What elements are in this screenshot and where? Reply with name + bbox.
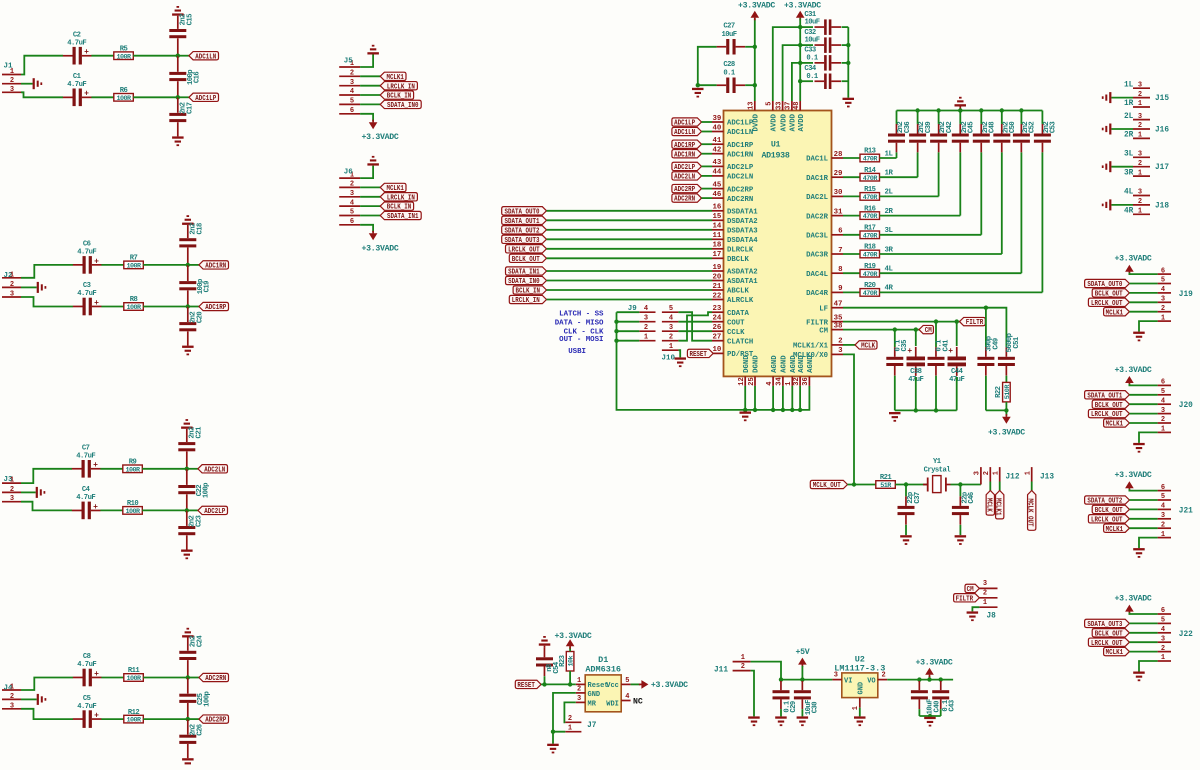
wire node2 to label bbox=[178, 96, 189, 98]
wire C15 to node1 bbox=[177, 38, 179, 55]
svg-text:C29: C29 bbox=[790, 701, 798, 713]
ground above C21 bbox=[181, 419, 193, 429]
svg-text:DAC4R: DAC4R bbox=[806, 290, 829, 298]
wire LRCLK_OUT to J19 bbox=[1129, 301, 1157, 303]
net label ADC2LP bbox=[198, 506, 228, 516]
wire DGND pin to rail bbox=[744, 386, 746, 410]
wire AVDD pin rail to C32 bbox=[783, 45, 801, 101]
wire C31 to gnd bus bbox=[842, 26, 849, 28]
svg-text:4: 4 bbox=[1161, 397, 1165, 405]
capacitor C29 0.1 bbox=[773, 681, 799, 713]
wire AGND pin to rail bbox=[772, 386, 774, 410]
svg-text:18: 18 bbox=[713, 242, 722, 250]
svg-text:100R: 100R bbox=[126, 304, 142, 312]
wire J12 pin1 to MCLK1 label bbox=[999, 482, 1001, 492]
wire VO row bbox=[887, 679, 953, 681]
wire C42 lead up bbox=[938, 111, 940, 124]
wire J10 pin3 to CCLK bbox=[678, 330, 712, 332]
svg-text:MCLK: MCLK bbox=[984, 498, 992, 513]
svg-text:C45: C45 bbox=[968, 122, 976, 134]
svg-text:C39: C39 bbox=[925, 122, 933, 134]
net label BCLK_IN bbox=[380, 202, 413, 212]
svg-text:4L: 4L bbox=[885, 266, 894, 274]
wire J6 pin1 to ground bbox=[360, 166, 373, 179]
svg-text:ADC2RP: ADC2RP bbox=[727, 186, 754, 194]
wire node1 to label bbox=[187, 468, 198, 470]
svg-text:8: 8 bbox=[838, 266, 843, 274]
net name 2R bbox=[885, 208, 894, 216]
ground at J2 pin2 bbox=[37, 282, 47, 293]
svg-text:2: 2 bbox=[741, 663, 745, 671]
svg-text:C18: C18 bbox=[196, 223, 204, 235]
U2 pin 2 VO bbox=[867, 672, 887, 686]
net label LRCLK_OUT at J20 bbox=[1088, 409, 1129, 419]
svg-text:2: 2 bbox=[350, 181, 354, 189]
junction C40 row bbox=[917, 677, 921, 681]
net name 4R bbox=[885, 285, 894, 293]
svg-text:6: 6 bbox=[1161, 267, 1165, 275]
wire +3.3VADC to J20 pin6 bbox=[1129, 384, 1157, 386]
ground below AVDD caps bbox=[843, 98, 855, 108]
svg-text:3: 3 bbox=[10, 86, 14, 94]
svg-text:4.7uF: 4.7uF bbox=[67, 81, 86, 89]
svg-text:46: 46 bbox=[713, 191, 722, 199]
svg-text:1: 1 bbox=[785, 381, 793, 385]
svg-text:C19: C19 bbox=[204, 281, 212, 293]
wire C40 top lead bbox=[918, 680, 920, 681]
svg-text:2: 2 bbox=[1138, 160, 1142, 168]
svg-text:LRCLK_IN: LRCLK_IN bbox=[512, 297, 540, 305]
wire to C34 bbox=[800, 80, 813, 82]
resistor R14 470R bbox=[860, 167, 880, 183]
wire to C33 bbox=[800, 62, 813, 64]
svg-text:16: 16 bbox=[713, 204, 722, 212]
wire C44 top lead bbox=[956, 322, 958, 346]
net label MCLK1 at J22 bbox=[1104, 647, 1130, 657]
net name 4R at J18 bbox=[1124, 208, 1134, 216]
capacitor C3 4.7uF bbox=[73, 282, 102, 315]
net label LRCLK_IN at U1 bbox=[509, 295, 546, 305]
svg-text:CCLK: CCLK bbox=[727, 329, 745, 337]
wire C27 right lead bbox=[745, 46, 755, 48]
wire C28 right lead bbox=[745, 84, 755, 86]
svg-text:1L: 1L bbox=[885, 150, 894, 158]
power +3.3VADC above J19 bbox=[1115, 255, 1152, 275]
wire C35 bottom lead bbox=[894, 376, 896, 411]
wire C2 to R5 bbox=[91, 55, 113, 57]
svg-text:1: 1 bbox=[644, 334, 648, 342]
svg-text:+: + bbox=[907, 347, 912, 356]
svg-text:ADC1LN: ADC1LN bbox=[195, 53, 216, 61]
svg-text:DSDATA4: DSDATA4 bbox=[727, 237, 758, 245]
U1 pin 43 ADC2LP bbox=[712, 159, 754, 172]
wire C52 lead down bbox=[1020, 152, 1022, 273]
wire C28 left lead bbox=[698, 84, 717, 86]
net name 2L at J16 bbox=[1124, 113, 1134, 121]
wire ground to J17 pin2 bbox=[1111, 166, 1133, 168]
junction rail AGND bbox=[781, 408, 785, 412]
wire ground to J15 pin2 bbox=[1111, 97, 1133, 99]
svg-text:1R: 1R bbox=[885, 170, 894, 178]
net label ADC2RN at U1 bbox=[672, 194, 702, 204]
wire C30 top lead bbox=[801, 680, 803, 681]
svg-text:ADC1RN: ADC1RN bbox=[205, 263, 226, 271]
junction USBI bus bbox=[614, 339, 618, 343]
wire J10 pin4 to COUT bbox=[678, 321, 712, 323]
svg-text:6: 6 bbox=[1161, 379, 1165, 387]
svg-text:44: 44 bbox=[713, 169, 722, 177]
wire J3 pin1 to row1 bbox=[21, 469, 72, 483]
svg-text:4: 4 bbox=[625, 693, 629, 701]
svg-text:4: 4 bbox=[1161, 626, 1165, 634]
svg-text:MCLK1: MCLK1 bbox=[386, 74, 404, 82]
U1 pin 12 DGND bbox=[738, 355, 751, 386]
U1 pin 42 ADC1RN bbox=[712, 147, 753, 160]
svg-text:C5: C5 bbox=[83, 695, 91, 703]
wire DAC out to R20 bbox=[843, 291, 860, 293]
wire SDATA_OUT2 to U1 bbox=[547, 229, 713, 231]
net label BCLK_OUT at J20 bbox=[1092, 400, 1129, 410]
svg-text:36: 36 bbox=[802, 377, 810, 385]
junction USBI bus bbox=[614, 329, 618, 333]
node junction row1 bbox=[176, 54, 180, 58]
power +3.3VADC below J6 bbox=[362, 231, 399, 254]
wire J1 pin2 to ground bbox=[21, 83, 33, 85]
svg-text:6: 6 bbox=[838, 228, 843, 236]
svg-text:1: 1 bbox=[1024, 471, 1032, 475]
resistor R18 470R bbox=[860, 244, 880, 260]
svg-text:1: 1 bbox=[1161, 531, 1165, 539]
svg-text:4.7uF: 4.7uF bbox=[77, 661, 96, 669]
wire J7 pin1 to node bbox=[553, 732, 565, 744]
wire C29 top lead bbox=[780, 680, 782, 681]
resistor R22 510R bbox=[995, 382, 1012, 402]
net label BCLK_IN at U1 bbox=[513, 286, 546, 296]
svg-text:C48: C48 bbox=[989, 122, 997, 134]
svg-text:D1: D1 bbox=[598, 655, 608, 665]
wire C1 to R6 bbox=[91, 96, 113, 98]
ground at J18 pin2 bbox=[1102, 199, 1112, 210]
D1 pin 5 Vcc bbox=[606, 677, 630, 690]
wire C39 lead up bbox=[917, 111, 919, 124]
U1 pin 7 DAC3R bbox=[806, 247, 843, 260]
svg-text:C20: C20 bbox=[196, 312, 204, 324]
svg-text:1: 1 bbox=[1138, 208, 1142, 216]
wire J1 pin1 to row1 bbox=[21, 56, 63, 75]
svg-text:3: 3 bbox=[1161, 296, 1165, 304]
resistor R9 100R bbox=[123, 459, 143, 475]
svg-text:LATCH - SS: LATCH - SS bbox=[559, 311, 604, 319]
connector J21 bbox=[1158, 484, 1194, 539]
svg-text:+: + bbox=[94, 299, 99, 308]
svg-text:DLRCLK: DLRCLK bbox=[727, 247, 754, 255]
wire node1 to C19 bbox=[187, 265, 189, 281]
svg-text:3: 3 bbox=[577, 695, 581, 703]
svg-text:NC: NC bbox=[633, 697, 643, 706]
net label MCLK bbox=[855, 341, 877, 351]
connector J13 bbox=[1024, 467, 1054, 481]
svg-text:R9: R9 bbox=[129, 459, 137, 467]
wire MCLK0/X0 to MCLK_OUT node bbox=[843, 354, 854, 484]
U1 pin 18 DLRCLK bbox=[712, 242, 754, 255]
svg-text:+: + bbox=[94, 712, 99, 721]
capacitor C39 2n2 bbox=[909, 122, 933, 153]
svg-text:470R: 470R bbox=[863, 252, 879, 260]
wire DAC out to R18 bbox=[843, 253, 860, 255]
net label SDATA_OUT3 at J22 bbox=[1085, 619, 1130, 629]
svg-text:U1: U1 bbox=[771, 141, 781, 150]
ground below C20 bbox=[182, 346, 194, 356]
connector J7 bbox=[565, 715, 596, 732]
net label SDATA_OUT2 at U1 bbox=[502, 226, 547, 236]
U1 pin 20 ASDATA1 bbox=[712, 273, 758, 286]
svg-text:ADC1RN: ADC1RN bbox=[727, 151, 753, 159]
capacitor C5 4.7uF bbox=[73, 695, 102, 728]
svg-text:DAC1R: DAC1R bbox=[806, 175, 829, 183]
wire node2 to label bbox=[188, 306, 199, 308]
junction C29 row bbox=[779, 677, 783, 681]
wire C40-C43 ground link bbox=[919, 715, 940, 717]
svg-text:C23: C23 bbox=[195, 516, 203, 528]
svg-text:ADC1LP: ADC1LP bbox=[674, 120, 695, 128]
capacitor C40 10uF bbox=[911, 681, 942, 715]
svg-text:4: 4 bbox=[1161, 286, 1165, 294]
wire C35 top lead bbox=[894, 330, 896, 348]
wire C26 to ground bbox=[187, 744, 189, 758]
svg-text:ADC1RP: ADC1RP bbox=[205, 304, 226, 312]
wire LRCLK_OUT to J20 bbox=[1129, 413, 1157, 415]
svg-text:1: 1 bbox=[1138, 100, 1142, 108]
capacitor C36 2n2 bbox=[888, 122, 912, 153]
svg-text:+3.3VADC: +3.3VADC bbox=[362, 244, 399, 253]
net label ADC1RP at U1 bbox=[672, 140, 702, 150]
svg-text:3: 3 bbox=[1161, 407, 1165, 415]
svg-text:Crystal: Crystal bbox=[924, 466, 952, 474]
net label BCLK_OUT at U1 bbox=[509, 254, 546, 264]
ground below C26 bbox=[182, 758, 194, 768]
wire C40 bottom lead bbox=[918, 709, 920, 716]
svg-text:DAC3R: DAC3R bbox=[806, 252, 829, 260]
wire R21 to C37 node bbox=[895, 484, 927, 486]
junction CM C38 bbox=[914, 327, 918, 331]
U1 pin 19 ASDATA2 bbox=[712, 264, 758, 277]
wire J4 pin1 to row1 bbox=[21, 678, 73, 691]
junction rail AGND bbox=[798, 408, 802, 412]
net label CM bbox=[919, 325, 933, 335]
svg-text:C36: C36 bbox=[904, 122, 912, 134]
svg-text:3L: 3L bbox=[885, 227, 894, 235]
svg-text:ADC2RP: ADC2RP bbox=[674, 186, 695, 194]
wire ground to C18 bbox=[187, 225, 189, 238]
wire SDATA_OUT2 to J21 bbox=[1129, 499, 1157, 501]
svg-text:2: 2 bbox=[10, 281, 14, 289]
svg-text:10uF: 10uF bbox=[721, 31, 736, 39]
svg-text:100R: 100R bbox=[125, 466, 141, 474]
svg-text:ASDATA2: ASDATA2 bbox=[727, 269, 758, 277]
wire J6 pin4 to label bbox=[360, 205, 380, 207]
svg-text:4: 4 bbox=[350, 88, 354, 96]
connector J16 bbox=[1133, 113, 1169, 140]
U1 pin 34 AGND bbox=[776, 355, 789, 386]
net label BCLK_OUT at J22 bbox=[1092, 629, 1129, 639]
svg-text:100R: 100R bbox=[116, 95, 132, 103]
wire ADC2LN to U1 pin bbox=[702, 175, 713, 177]
U1 pin 4 AGND bbox=[766, 355, 779, 386]
wire J1 pin3 to row2 bbox=[21, 92, 63, 97]
svg-text:3: 3 bbox=[350, 190, 354, 198]
capacitor C41 0.1 bbox=[928, 339, 951, 376]
svg-text:1: 1 bbox=[852, 706, 860, 710]
svg-text:470R: 470R bbox=[863, 232, 879, 240]
svg-text:2: 2 bbox=[644, 324, 648, 332]
svg-text:+5V: +5V bbox=[795, 648, 809, 657]
svg-text:4.7uF: 4.7uF bbox=[77, 290, 96, 298]
svg-text:C2: C2 bbox=[73, 31, 81, 39]
net name 3R bbox=[885, 246, 894, 254]
svg-text:DSDATA1: DSDATA1 bbox=[727, 209, 758, 217]
ground at J8 bbox=[967, 611, 979, 621]
node junction row1 bbox=[185, 467, 189, 471]
svg-text:ADC2RN: ADC2RN bbox=[674, 196, 695, 204]
svg-text:MCLK1: MCLK1 bbox=[1106, 309, 1124, 317]
junction CM rail C38 bbox=[914, 408, 918, 412]
svg-text:RESET: RESET bbox=[517, 682, 535, 690]
connector J3 bbox=[2, 476, 21, 503]
svg-text:SDATA_OUT2: SDATA_OUT2 bbox=[505, 227, 540, 235]
capacitor C18 2n2 bbox=[179, 223, 204, 247]
ground above C18 bbox=[182, 215, 194, 225]
svg-text:C8: C8 bbox=[83, 653, 91, 661]
svg-text:LRCLK_OUT: LRCLK_OUT bbox=[1091, 300, 1123, 308]
net label MCLK1 at J20 bbox=[1104, 419, 1130, 429]
svg-text:J21: J21 bbox=[1179, 507, 1193, 515]
svg-text:+3.3VADC: +3.3VADC bbox=[988, 428, 1025, 437]
connector J20 bbox=[1158, 379, 1194, 434]
net label ADC2LP at U1 bbox=[672, 162, 702, 172]
wire R11 to node bbox=[143, 677, 188, 679]
wire LRCLK_OUT to J21 bbox=[1129, 518, 1157, 520]
D1 pin 3 MR bbox=[576, 695, 597, 708]
net label LRCLK_IN bbox=[380, 82, 417, 92]
wire node1 to label bbox=[178, 55, 189, 57]
svg-text:+: + bbox=[94, 257, 99, 266]
svg-text:+3.3VADC: +3.3VADC bbox=[362, 133, 399, 142]
net label MCLK1 bbox=[380, 183, 406, 193]
svg-text:3: 3 bbox=[350, 79, 354, 87]
wire C25 to node2 bbox=[187, 703, 189, 719]
regulator U2 body LM1117-3.3 bbox=[834, 654, 885, 697]
U2 pin 1 GND bbox=[852, 682, 866, 710]
power +3.3VADC above J22 bbox=[1115, 595, 1152, 615]
svg-text:J16: J16 bbox=[1155, 127, 1169, 135]
svg-text:SDATA_OUT0: SDATA_OUT0 bbox=[1087, 281, 1122, 289]
svg-text:4: 4 bbox=[644, 305, 648, 313]
svg-text:J20: J20 bbox=[1179, 402, 1193, 410]
power +3.3VADC above J21 bbox=[1115, 471, 1152, 491]
connector J17 bbox=[1133, 151, 1169, 178]
wire R13 to cap C36 bbox=[880, 157, 897, 159]
wire C41 top lead bbox=[935, 322, 937, 348]
wire J6 pin5 to label bbox=[360, 215, 380, 217]
junction R23 bbox=[568, 682, 572, 686]
svg-text:R23: R23 bbox=[559, 655, 567, 667]
U1 pin 36 AGND bbox=[802, 355, 815, 386]
svg-text:USBI: USBI bbox=[568, 348, 586, 356]
junction USBI bus bbox=[614, 320, 618, 324]
wire R12 to node bbox=[143, 718, 188, 720]
svg-text:+: + bbox=[93, 461, 98, 470]
svg-text:SDATA_OUT0: SDATA_OUT0 bbox=[505, 208, 540, 216]
svg-text:1: 1 bbox=[669, 343, 673, 351]
wire MCLK1 to J20 bbox=[1129, 422, 1157, 424]
net name 4L bbox=[885, 266, 894, 274]
svg-text:+: + bbox=[84, 48, 89, 57]
svg-text:4.7uF: 4.7uF bbox=[76, 494, 95, 502]
capacitor C19 100p bbox=[179, 279, 211, 294]
U1 pin 1 AGND bbox=[785, 355, 798, 386]
svg-text:C52: C52 bbox=[1029, 122, 1037, 134]
svg-text:+3.3VADC: +3.3VADC bbox=[1115, 255, 1152, 264]
wire node1 to label bbox=[188, 677, 199, 679]
U1 pin 9 DAC4R bbox=[806, 285, 843, 298]
connector J8 bbox=[979, 580, 997, 621]
wire J11 pin1 to VI row bbox=[751, 662, 781, 680]
svg-text:J15: J15 bbox=[1155, 95, 1169, 103]
ground at J16 pin2 bbox=[1102, 124, 1112, 135]
U1 pin 6 DAC3L bbox=[806, 228, 843, 241]
svg-text:6: 6 bbox=[1161, 607, 1165, 615]
wire DAC out to R19 bbox=[843, 272, 860, 274]
node junction row2 bbox=[185, 508, 189, 512]
capacitor C31 10uF bbox=[804, 11, 841, 35]
capacitor C52 2n2 bbox=[1013, 122, 1037, 153]
wire C20 to ground bbox=[187, 331, 189, 345]
svg-text:470R: 470R bbox=[863, 271, 879, 279]
resistor R13 470R bbox=[860, 148, 880, 164]
wire R23 bottom lead bbox=[569, 671, 571, 684]
svg-text:DSDATA2: DSDATA2 bbox=[727, 218, 758, 226]
wire AVDD48 rail bbox=[799, 19, 801, 102]
svg-text:39: 39 bbox=[713, 115, 722, 123]
svg-text:3: 3 bbox=[10, 702, 14, 710]
svg-text:MCLK1/X1: MCLK1/X1 bbox=[793, 343, 829, 351]
svg-text:470R: 470R bbox=[863, 194, 879, 202]
ground below C29 bbox=[775, 716, 787, 726]
svg-text:2: 2 bbox=[1138, 198, 1142, 206]
wire J5 pin4 to label bbox=[360, 94, 380, 96]
capacitor C44 47uF bbox=[948, 347, 967, 384]
svg-text:1: 1 bbox=[1161, 314, 1165, 322]
svg-text:ADC1LN: ADC1LN bbox=[727, 129, 753, 137]
svg-text:47: 47 bbox=[834, 301, 843, 309]
net label ADC2RN bbox=[199, 673, 229, 683]
wire node1 to label bbox=[188, 264, 199, 266]
svg-text:+: + bbox=[84, 90, 89, 99]
net label ADC2LN bbox=[198, 465, 228, 475]
wire R9 to node bbox=[142, 468, 187, 470]
svg-text:4R: 4R bbox=[885, 285, 894, 293]
svg-text:RESET: RESET bbox=[689, 351, 707, 359]
ground below J20 bbox=[1133, 443, 1145, 453]
svg-text:4.7uF: 4.7uF bbox=[67, 39, 86, 47]
svg-text:DGND: DGND bbox=[753, 355, 761, 373]
wire C50 lead up bbox=[1001, 111, 1003, 124]
U1 pin 38 CM bbox=[819, 322, 843, 335]
wire ADC2RP to U1 pin bbox=[702, 188, 713, 190]
svg-text:2L: 2L bbox=[1124, 113, 1134, 121]
net label FILTR bbox=[960, 317, 986, 327]
wire C4 to R10 bbox=[100, 509, 122, 511]
